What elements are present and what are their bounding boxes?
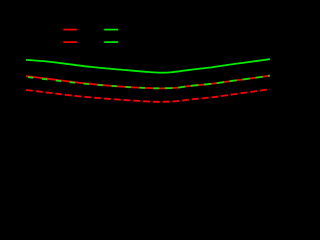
curve: middle green dashed right half (over layer) xyxy=(155,76,270,89)
legend swatch red row2 xyxy=(63,41,77,43)
curve: top green solid xyxy=(26,59,270,73)
legend swatch red row1 xyxy=(63,29,77,31)
curve: bottom red dashed xyxy=(26,89,270,102)
curve: middle green dashed left half (over layer) xyxy=(26,77,155,88)
legend swatch green row2 xyxy=(104,41,118,43)
legend swatch green row1 xyxy=(104,29,118,31)
chart: error-vs-parameter plot on black background xyxy=(0,0,277,178)
curve: middle red solid (under layer) xyxy=(26,76,270,89)
